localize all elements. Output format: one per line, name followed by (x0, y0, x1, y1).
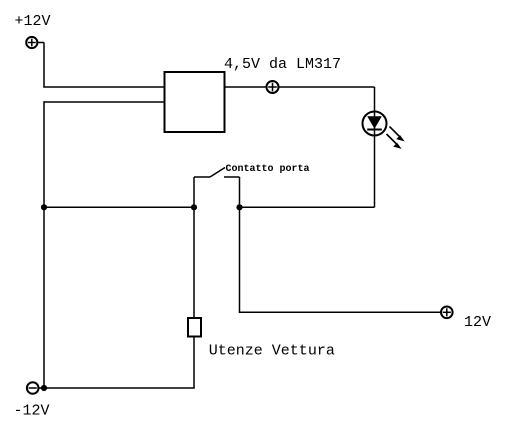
svg-text:Utenze Vettura: Utenze Vettura (209, 343, 335, 360)
terminal -12V (27, 382, 39, 394)
resistor Utenze Vettura (188, 318, 201, 337)
terminal +12V (26, 37, 37, 48)
wire terminal +12V to corner (37, 42, 44, 44)
svg-text:4,5V da LM317: 4,5V da LM317 (224, 56, 341, 73)
wire rail right segment (240, 206, 375, 208)
switch blade jog (194, 176, 210, 178)
switch left post (193, 177, 195, 207)
node junction switch right (236, 204, 242, 210)
node junction switch left (191, 204, 197, 210)
wire left vertical bus (43, 101, 45, 388)
wire vertical from +12V corner down (43, 43, 45, 88)
wire rail left segment (44, 206, 194, 208)
svg-text:-12V: -12V (14, 402, 50, 419)
switch right post (239, 177, 241, 207)
LED D1 (363, 87, 387, 207)
terminal 4,5V output (267, 81, 279, 93)
wire bottom rail (44, 387, 195, 389)
LED light arrow 1 (390, 127, 405, 142)
wire horizontal to 12V terminal (239, 311, 441, 313)
wire horizontal into regulator input (43, 86, 165, 88)
svg-text:Contatto porta: Contatto porta (226, 164, 310, 175)
wire switch branch down to resistor (193, 207, 195, 318)
switch right contact (224, 176, 240, 178)
wire regulator output horizontal (225, 86, 375, 88)
svg-text:12V: 12V (464, 314, 491, 331)
terminal 12V (441, 307, 453, 319)
wire resistor to bottom rail (193, 337, 195, 389)
svg-text:+12V: +12V (15, 13, 51, 30)
node junction left bus (41, 204, 47, 210)
regulator box LM317 (165, 72, 225, 132)
switch blade diagonal (210, 168, 225, 178)
wire horizontal regulator lower pin (44, 101, 165, 103)
LED light arrow 2 (387, 134, 402, 149)
wire vertical to 12V feed (239, 207, 241, 312)
node junction bottom left (41, 385, 47, 391)
wire -12V terminal to node (39, 387, 45, 389)
